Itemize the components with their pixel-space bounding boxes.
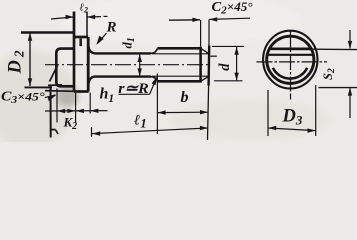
svg-text:d: d: [217, 63, 233, 71]
svg-text:b: b: [181, 89, 189, 106]
svg-text:R: R: [106, 20, 117, 36]
svg-text:r≃R: r≃R: [118, 81, 149, 97]
svg-text:ℓ1: ℓ1: [134, 113, 147, 131]
svg-text:C3×45°: C3×45°: [1, 89, 45, 107]
